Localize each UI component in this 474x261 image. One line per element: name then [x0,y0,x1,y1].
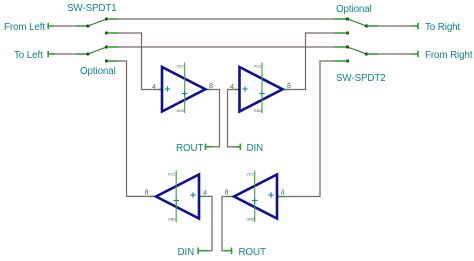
svg-text:Optional: Optional [336,4,372,15]
port To Left [14,50,55,61]
switch SW2 (Optional) [77,46,119,63]
svg-text:SW-SPDT2: SW-SPDT2 [336,73,386,84]
wire net SW1 bottom throw to U1 input [119,33,158,90]
buffer U2 (top-right, driver) [230,63,291,114]
port DIN (bottom) [178,247,209,258]
svg-text:From Left: From Left [4,22,45,33]
wire net DIN port to U2 input [228,90,235,147]
wire net SW4 bottom throw to U4 input [286,61,335,197]
wire net SW3 bottom throw to U2 output [290,33,335,90]
svg-text:8: 8 [209,81,213,90]
svg-text:VCC: VCC [254,65,262,69]
svg-text:8: 8 [145,188,149,197]
svg-text:Optional: Optional [80,66,116,77]
wire net SW2 top throw to SW4 top throw [119,46,335,48]
svg-text:GND: GND [168,218,176,222]
svg-text:VCC: VCC [247,173,255,177]
wire net SW1 top throw to SW3 top throw [119,18,335,20]
switch SW4 (SW-SPDT2) [335,46,379,63]
port To Right [411,22,461,33]
wire To Left to SW2 common [55,53,77,55]
svg-text:VCC: VCC [177,65,185,69]
svg-text:4: 4 [203,188,207,197]
wire net U1 output to ROUT port [211,90,220,147]
svg-text:8: 8 [225,188,229,197]
wire net U3 input to DIN port [205,196,212,250]
svg-text:SW-SPDT1: SW-SPDT1 [67,3,117,14]
svg-text:GND: GND [254,109,262,113]
buffer U1 (top-left, receiver) [152,63,213,114]
svg-text:GND: GND [177,109,185,113]
svg-text:From Right: From Right [425,50,473,61]
svg-text:To Left: To Left [14,50,43,61]
buffer U4 (bottom-right, receiver, mirrored) [225,171,286,223]
svg-text:4: 4 [281,188,285,197]
port From Left [4,22,54,33]
buffer U3 (bottom-left, driver, mirrored) [145,171,208,223]
port ROUT (bottom) [225,247,266,258]
port DIN (middle) [233,143,263,154]
wire From Left to SW1 common [54,25,77,27]
svg-text:VCC: VCC [168,173,176,177]
wire SW3 common to To Right [379,25,412,27]
svg-text:GND: GND [247,218,255,222]
svg-text:DIN: DIN [178,247,195,258]
svg-text:8: 8 [287,81,291,90]
svg-text:4: 4 [152,82,156,91]
svg-text:ROUT: ROUT [176,143,203,154]
svg-text:To Right: To Right [425,22,461,33]
svg-text:DIN: DIN [247,143,264,154]
wire net U4 output to ROUT port [222,197,229,251]
svg-text:4: 4 [230,82,234,91]
port From Right [411,50,473,61]
port ROUT (middle) [176,143,213,154]
svg-text:ROUT: ROUT [239,247,266,258]
switch SW3 (SPDT, mirrored) [335,18,379,35]
switch SW1 (SPDT) [77,18,119,35]
wire SW4 common to From Right [379,53,412,55]
wire net SW2 bottom throw to U3 output [119,61,149,196]
